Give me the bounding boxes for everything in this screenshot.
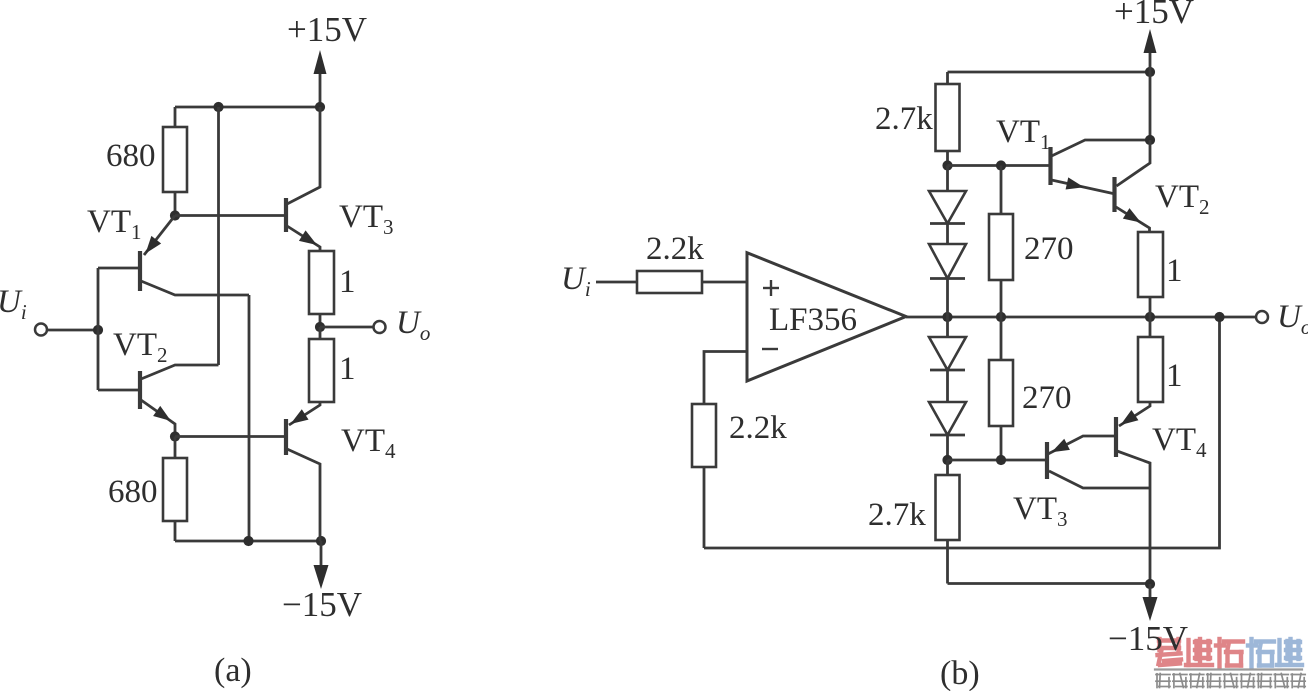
node: feedback takeoff junction [1214, 312, 1224, 322]
svg-text:Ui: Ui [561, 261, 591, 301]
wire: top 1 resistor to output row [1149, 297, 1152, 317]
watermark logo char 4 (blue) [1249, 639, 1253, 667]
svg-text:VT4: VT4 [341, 423, 396, 463]
transistor VT2 (NPN) [138, 371, 142, 409]
feedback rail wire to output [704, 317, 1220, 548]
wire D3-D4 [946, 370, 949, 402]
svg-text:270: 270 [1022, 380, 1072, 416]
svg-text:1: 1 [1166, 253, 1183, 289]
wire: inverting input to feedback resistor [704, 352, 747, 405]
resistor R 1 (bottom) wires [1149, 317, 1152, 337]
svg-text:2.7k: 2.7k [875, 101, 933, 137]
transistor VT2 (NPN, output) [1112, 177, 1116, 212]
resistor R 2.7k (bottom) wires [946, 460, 949, 475]
svg-text:VT4: VT4 [1152, 422, 1207, 462]
resistor R 680 (top) body [163, 127, 187, 192]
transistor VT1 (PNP) [138, 251, 142, 291]
circuit (a) bottom supply rail wire [175, 540, 321, 543]
diode D2 [929, 244, 966, 279]
output terminal Uo of circuit (a) [374, 321, 386, 333]
op-amp output wire / output row [906, 316, 1256, 319]
node: bottom rail junction with cross-coupling wire [243, 536, 253, 546]
svg-text:VT3: VT3 [1013, 491, 1068, 531]
node: bottom bias junction (diodes/2.7k) [942, 455, 952, 465]
resistor R 680 (bottom) body [163, 458, 187, 521]
resistor R 1 (upper) body [309, 251, 334, 314]
node: bottom rail junction at -15V [316, 536, 326, 546]
wire D1-D2 [946, 224, 949, 245]
transistor VT3 (NPN) [284, 198, 288, 232]
resistor R 1 (top) body [1138, 232, 1163, 297]
diode D3 [929, 337, 966, 370]
wire: feedback resistor to feedback rail [703, 467, 706, 548]
node: top rail junction with cross-coupling wire [213, 102, 223, 112]
node: top rail junction at VT3 collector [315, 102, 325, 112]
svg-text:(a): (a) [214, 652, 252, 689]
svg-text:+15V: +15V [1114, 0, 1194, 31]
resistor R 270 (top) wires [1000, 166, 1003, 215]
wire: common base vertical [97, 268, 100, 390]
circuit (b) +15V arrow [1149, 52, 1152, 72]
op-amp + input symbol [763, 287, 779, 289]
watermark underline [1155, 668, 1302, 670]
wire output row to D3 [946, 317, 949, 337]
svg-text:+15V: +15V [287, 10, 367, 49]
wire: -15V rail of circuit (b) [948, 582, 1151, 585]
resistor R 2.7k (bottom) body [936, 475, 960, 540]
svg-text:1: 1 [339, 351, 356, 387]
circuit (b) top supply rail wire [948, 71, 1151, 74]
watermark logo char 5 (blue) [1277, 640, 1281, 665]
resistor R 2.2k (input) body [637, 271, 702, 293]
svg-text:VT1: VT1 [996, 114, 1051, 154]
node: -15V junction [1145, 579, 1155, 589]
wire: node B to VT4 base [175, 435, 284, 438]
transistor VT4 (PNP, output) [1114, 417, 1118, 457]
node: 270 bottom junction [996, 455, 1006, 465]
transistor VT3 (PNP, Darlington driver) [1045, 442, 1049, 479]
transistor VT1 (NPN, Darlington driver) [1048, 147, 1052, 185]
output wire to terminal [320, 326, 373, 329]
resistor R 2.7k (top) wires [946, 72, 949, 84]
wire D4 to bottom bias node [946, 435, 949, 460]
svg-text:Ui: Ui [0, 284, 27, 324]
resistor R 270 (top) body [989, 214, 1013, 280]
wire: input resistor to op-amp + [702, 281, 747, 284]
svg-text:270: 270 [1024, 231, 1074, 267]
resistor R 680 (top) wires [174, 107, 177, 127]
resistor R 270 (bottom) body [989, 360, 1013, 426]
svg-text:VT1: VT1 [87, 204, 142, 244]
node: collector junction of VT1/VT2 [1145, 135, 1155, 145]
resistor R 2.2k (feedback) body [692, 404, 716, 467]
diode D4 [929, 402, 966, 435]
svg-text:680: 680 [108, 474, 158, 510]
wire: Ui to input resistor [596, 281, 637, 284]
svg-text:680: 680 [106, 138, 156, 174]
resistor R 2.7k (top) body [936, 84, 960, 151]
circuit (a) +15V arrow [319, 60, 322, 107]
wire: +15V vertical to collectors [1149, 72, 1152, 141]
resistor R 270 (bottom) wires [1000, 317, 1003, 360]
svg-text:VT2: VT2 [1155, 179, 1210, 219]
node: +15V rail junction [1145, 67, 1155, 77]
watermark logo char 3 (red) [1217, 639, 1221, 667]
wire: VT2 collector cross-coupling vertical to top rail [217, 107, 220, 365]
wire D2 to output row [946, 279, 949, 318]
op-amp U1 LF356 triangle [747, 253, 906, 381]
svg-text:(b): (b) [940, 655, 980, 691]
svg-text:LF356: LF356 [769, 302, 857, 338]
circuit (b) -15V arrow [1149, 584, 1152, 603]
svg-text:Uo: Uo [396, 305, 430, 345]
node B: VT2 emitter / 680 / VT4 base junction [170, 431, 180, 441]
svg-text:VT2: VT2 [113, 327, 168, 367]
output terminal Uo of circuit (b) [1256, 311, 1268, 323]
node: 270 resistors mid junction [996, 312, 1006, 322]
circuit (a) -15V arrow [320, 541, 323, 578]
resistor R 1 (bottom) body [1138, 337, 1163, 402]
svg-text:2.2k: 2.2k [729, 410, 787, 446]
node: input junction of VT1/VT2 bases [93, 325, 103, 335]
node: 270 top junction [996, 160, 1006, 170]
circuit (a) top supply rail wire [175, 106, 320, 109]
svg-text:−15V: −15V [282, 585, 362, 624]
resistor R 1 (lower) body [309, 339, 334, 402]
svg-text:Uo: Uo [1277, 299, 1308, 339]
wire: upper 1 resistor to output node [319, 314, 322, 327]
svg-text:2.2k: 2.2k [646, 231, 704, 267]
node: diode string mid junction [942, 312, 952, 322]
svg-text:2.7k: 2.7k [868, 497, 926, 533]
node A: VT1 emitter / 680 / VT3 base junction [170, 210, 180, 220]
diode string top wire [946, 166, 949, 192]
node: output junction below 1 resistors [1145, 312, 1155, 322]
wire: VT1 collector cross-coupling vertical to bottom rail [248, 295, 251, 541]
node: output junction of circuit (a) [315, 322, 325, 332]
transistor VT4 (PNP) [284, 419, 288, 455]
wire: node A to VT3 base [175, 214, 284, 217]
svg-text:−15V: −15V [1108, 619, 1188, 658]
svg-text:1: 1 [339, 264, 356, 300]
svg-text:1: 1 [1166, 358, 1183, 394]
watermark logo char 1 (red) [1159, 638, 1179, 642]
diode D1 [929, 191, 966, 224]
svg-text:VT3: VT3 [339, 199, 394, 239]
wire: output node to lower 1 resistor [319, 327, 322, 339]
resistor R 680 (bottom) wires [174, 437, 177, 459]
node: top bias junction (diodes/270/VT1 base) [942, 160, 952, 170]
wire: bias node to VT1 base [948, 164, 1050, 167]
wire: bottom bias node to VT3 base [948, 459, 1046, 462]
op-amp - input symbol [762, 348, 778, 350]
watermark logo char 2 (red) [1186, 640, 1190, 665]
watermark tagline (gray) [1156, 674, 1170, 676]
